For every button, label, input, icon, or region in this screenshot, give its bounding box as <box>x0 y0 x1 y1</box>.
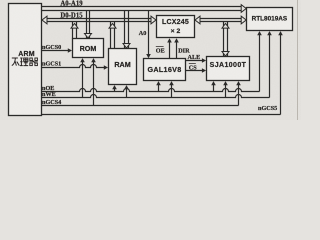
wire A0 to GAL16V8 <box>146 11 151 59</box>
wire ROM pin to nGCS4 rail <box>91 58 96 105</box>
wire nGCS5 rail <box>42 31 283 114</box>
ethernet controller block RTL8019AS <box>247 8 293 31</box>
label OE (active low) <box>156 46 165 54</box>
wire OE pin LCX245 to GAL16V8 <box>167 38 172 58</box>
processor block ARM 处理器 <box>9 4 42 116</box>
page edge line right <box>297 0 299 120</box>
scan noise overlay <box>0 0 301 120</box>
address bus drop to RAM <box>123 11 130 49</box>
wire GAL16V8 pin to nOE rail <box>156 81 161 91</box>
buffer block LCX245 x2 <box>157 16 195 38</box>
wire GAL16V8 pin to nWE rail <box>169 81 174 97</box>
wire RAM pin to nOE rail <box>112 85 117 91</box>
label CS (active low) <box>189 64 197 72</box>
wire nGCS0 to ROM CS <box>42 48 73 53</box>
CAN controller block SJA1000T <box>207 57 250 81</box>
wire ROM pin to nWE rail <box>80 58 85 97</box>
wire nGCS1 to RAM CS <box>42 65 109 70</box>
address bus A0-A19 wire <box>42 5 247 13</box>
wire SJA1000T pin to nGCS4 rail <box>236 81 241 105</box>
wire CS GAL16V8 to SJA1000T <box>186 68 207 73</box>
wire nGCS4 rail <box>42 105 239 107</box>
wire SJA1000T pin to nOE rail <box>211 81 216 91</box>
logic block GAL16V8 <box>144 59 186 81</box>
wire nWE rail <box>42 31 272 97</box>
data bus drop to RAM <box>109 22 116 49</box>
memory block RAM <box>109 49 137 85</box>
wire RAM pin to nWE rail <box>124 85 129 97</box>
background paper <box>0 0 301 120</box>
wire DIR pin LCX245 to GAL16V8 <box>174 38 179 58</box>
memory block ROM <box>73 39 104 58</box>
data bus drop to ROM <box>71 22 78 39</box>
data bus D0-D15 wire (ARM to LCX245) <box>42 16 156 24</box>
wire SJA1000T pin to nWE rail <box>223 81 228 97</box>
buffered data bus wire (LCX245 to RTL8019AS) <box>195 16 246 24</box>
address bus drop to ROM <box>85 11 92 39</box>
wire nOE rail <box>42 31 262 91</box>
wire ALE GAL16V8 to SJA1000T <box>186 58 207 63</box>
data bus drop to SJA1000T <box>222 22 229 57</box>
